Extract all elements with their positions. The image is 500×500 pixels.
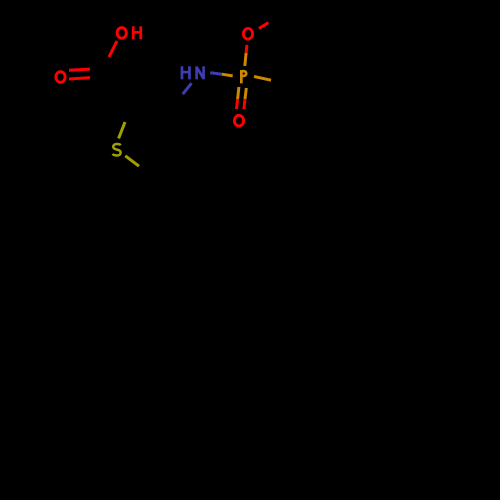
bond C=O carbonyl lower line, O half [69, 78, 90, 79]
atom label O ester [243, 28, 252, 39]
bond O(H)-C carboxyl, O half [109, 41, 117, 57]
bond S-C5 ring, S half [125, 156, 139, 166]
bond P=O right line, O half [244, 99, 245, 109]
bond N-C3 ring, N half [183, 83, 192, 94]
atom label OH hydroxyl H [133, 26, 141, 39]
bond P=O right line, P half [245, 88, 246, 99]
bond S-C2 ring, S half [119, 122, 125, 138]
bond O(ester)-P, P half [245, 53, 246, 66]
atom label O carbonyl [56, 72, 65, 83]
bond P=O left line, O half [237, 99, 238, 109]
bond C=O carbonyl upper line, O half [69, 69, 90, 70]
bond N-P, N half [210, 73, 222, 75]
bond N-P, P half [222, 74, 233, 76]
atom label HN amide H [182, 66, 190, 79]
bond P-C chain, P half [254, 77, 271, 81]
bond O(ester)-P, O half [245, 45, 249, 53]
atom label HN amide N [197, 66, 204, 79]
atom label OH hydroxyl O [117, 28, 126, 39]
atom label S thiophene [113, 144, 121, 155]
bond O(ester)-CH3, O half [259, 23, 269, 29]
bond P=O left line, P half [238, 87, 239, 99]
atom label P [241, 70, 246, 83]
atom label O phosphoryl [234, 115, 243, 126]
